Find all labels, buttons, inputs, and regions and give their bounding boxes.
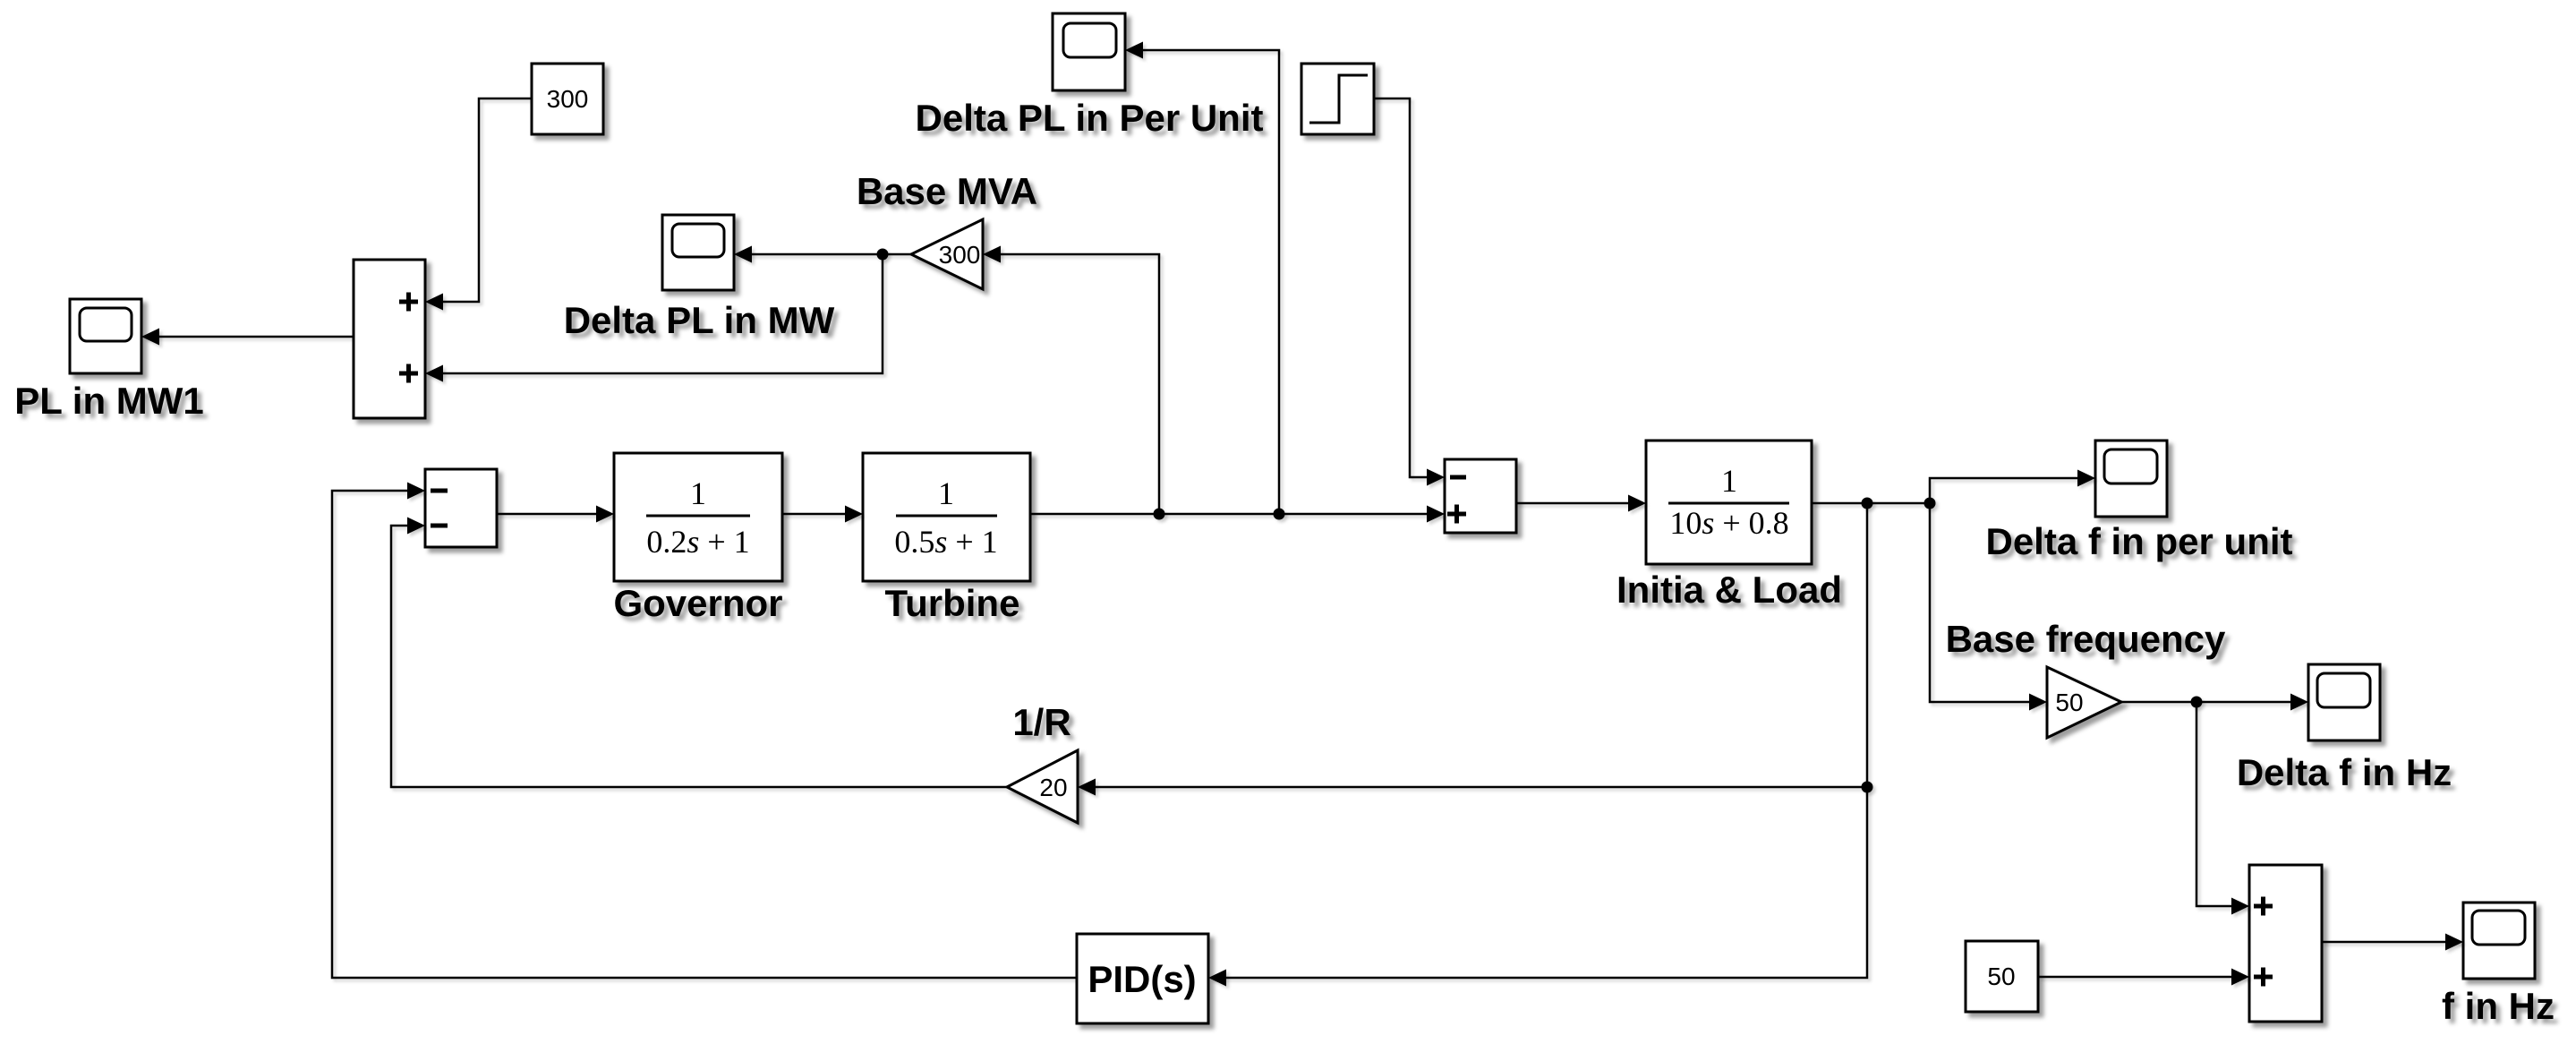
arrowhead into Governor xyxy=(596,506,614,523)
wire: branch down to Add4 top input xyxy=(2196,702,2247,906)
arrowhead into PID input xyxy=(1208,970,1226,987)
junction dot Initia output scope branch xyxy=(1924,498,1936,509)
svg-text:0.5s + 1: 0.5s + 1 xyxy=(894,524,997,560)
wire: Delta PL in MW tap down to Add1 bottom input xyxy=(428,254,883,373)
PID controller xyxy=(1077,934,1208,1023)
gain 1/R (20) xyxy=(1007,750,1078,823)
transfer function Turbine xyxy=(863,453,1030,581)
wire: main row tap up to gain Base MVA input xyxy=(985,254,1159,514)
sum block Add3 (two minus inputs) xyxy=(425,469,497,547)
wire: gain 1/R output to Add3 lower input xyxy=(391,526,1007,787)
wire: Add4 output to scope f in Hz xyxy=(2322,941,2461,944)
arrowhead into scope Delta PL in MW xyxy=(734,246,752,263)
wire: Turbine output to Add2 plus input xyxy=(1030,513,1442,516)
arrowhead into scope f in Hz xyxy=(2445,934,2463,951)
arrowhead into Add1 bottom input xyxy=(425,365,443,382)
svg-text:300: 300 xyxy=(547,85,589,113)
arrowhead into Add4 top input xyxy=(2231,898,2249,915)
step block xyxy=(1301,64,1374,134)
wire: step output down to Add2 minus input xyxy=(1374,98,1442,477)
arrowhead into Add4 bottom input xyxy=(2231,969,2249,986)
arrowhead into gain 1/R xyxy=(1078,779,1096,796)
wire: gain Base frequency output to scope Delta f in Hz xyxy=(2121,701,2306,704)
svg-text:Base frequency: Base frequency xyxy=(1946,618,2226,660)
wire: constant 50 output to Add4 bottom input xyxy=(2038,976,2247,979)
svg-text:0.2s + 1: 0.2s + 1 xyxy=(646,524,749,560)
scope Delta PL in MW xyxy=(662,215,734,290)
wire: constant 300 to Add1 top input xyxy=(428,98,532,302)
junction dot Delta f in Hz branch xyxy=(2191,697,2203,708)
scope f in Hz xyxy=(2463,903,2535,979)
scope Delta PL in Per Unit xyxy=(1053,13,1125,90)
svg-text:Initia & Load: Initia & Load xyxy=(1616,569,1842,611)
junction dot on Delta PL in MW wire xyxy=(877,249,889,261)
junction dot main row to Base MVA xyxy=(1154,509,1165,520)
wire: main row tap up to scope Delta PL in Per Unit xyxy=(1128,50,1279,514)
svg-text:300: 300 xyxy=(939,241,981,269)
svg-text:1: 1 xyxy=(1721,463,1737,499)
arrowhead into Add2 plus input xyxy=(1427,506,1445,523)
svg-text:PID(s): PID(s) xyxy=(1088,958,1196,1000)
arrowhead into Add1 top input xyxy=(425,294,443,311)
scope Delta f in Hz xyxy=(2308,664,2380,740)
arrowhead into scope Delta f in Hz xyxy=(2290,694,2308,711)
arrowhead into Add2 minus input xyxy=(1427,469,1445,486)
svg-text:20: 20 xyxy=(1039,774,1067,801)
wire: Initia & Load output main run xyxy=(1812,502,1930,505)
svg-text:Delta f in Hz: Delta f in Hz xyxy=(2237,751,2452,793)
arrowhead into Add3 upper input xyxy=(407,483,425,500)
constant 50 xyxy=(1966,941,2038,1012)
wire: branch up to scope Delta f in per unit xyxy=(1930,478,2093,503)
svg-text:1/R: 1/R xyxy=(1012,701,1070,743)
svg-text:PL in MW1: PL in MW1 xyxy=(14,380,204,422)
svg-text:f in Hz: f in Hz xyxy=(2442,985,2555,1027)
svg-text:Turbine: Turbine xyxy=(885,582,1020,624)
junction dot main row to Delta PL in Per Unit xyxy=(1274,509,1285,520)
wire: Add1 output to scope PL in MW1 xyxy=(144,336,354,338)
wire: feedback branch to gain 1/R input xyxy=(1080,786,1867,789)
arrowhead into Add3 lower input xyxy=(407,518,425,535)
svg-text:Delta PL in MW: Delta PL in MW xyxy=(564,299,835,341)
arrowhead into scope Delta f in per unit xyxy=(2077,470,2095,487)
arrowhead into Initia & Load xyxy=(1628,495,1646,512)
wire: Add3 output to Governor input xyxy=(497,513,611,516)
arrowhead into gain Base MVA xyxy=(983,246,1001,263)
arrowhead into scope PL in MW1 xyxy=(141,329,159,346)
svg-text:50: 50 xyxy=(2055,689,2083,716)
junction dot Initia output feedback branch xyxy=(1862,498,1873,509)
wire: Add2 output to Initia & Load input xyxy=(1516,502,1643,505)
gain Base frequency (50) xyxy=(2047,667,2121,738)
svg-text:1: 1 xyxy=(938,475,954,511)
arrowhead into Turbine xyxy=(845,506,863,523)
gain Base MVA (300) xyxy=(911,219,983,289)
wire: feedback from Initia & Load output down to PID input xyxy=(1211,503,1867,978)
scope PL in MW1 xyxy=(70,299,141,373)
svg-text:Base MVA: Base MVA xyxy=(857,170,1037,212)
wire: Governor output to Turbine input xyxy=(782,513,860,516)
svg-text:Governor: Governor xyxy=(613,582,782,624)
svg-text:10s + 0.8: 10s + 0.8 xyxy=(1669,505,1788,541)
svg-text:Delta f in per unit: Delta f in per unit xyxy=(1985,520,2292,562)
sum block Add2 (-/+) xyxy=(1445,459,1516,533)
transfer function Initia & Load xyxy=(1646,441,1812,564)
svg-text:1: 1 xyxy=(690,475,706,511)
constant 300 xyxy=(532,64,603,134)
scope Delta f in per unit xyxy=(2095,441,2167,517)
arrowhead into scope Delta PL in Per Unit xyxy=(1125,42,1143,59)
svg-text:50: 50 xyxy=(1987,963,2015,990)
sum block Add1 (PL = 300 + Delta PL in MW) xyxy=(354,260,425,418)
junction dot feedback to 1/R xyxy=(1862,782,1873,793)
arrowhead into gain Base frequency xyxy=(2029,694,2047,711)
transfer function Governor xyxy=(614,453,782,581)
svg-text:Delta PL in Per Unit: Delta PL in Per Unit xyxy=(916,97,1264,139)
wire: PID output to Add3 upper input xyxy=(332,491,1077,978)
wire: gain Base MVA output to scope Delta PL in MW xyxy=(737,253,911,256)
wire: branch down to gain Base frequency input xyxy=(1930,503,2044,702)
sum block Add4 (f = 50 + Delta f) xyxy=(2249,865,2322,1022)
